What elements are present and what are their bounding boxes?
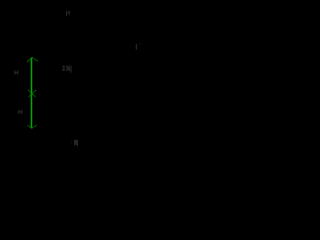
label E (left lower, faint H-like) [19, 110, 22, 114]
label C (left of lens middle, faint text cluster) [62, 66, 71, 73]
label D (left, faint H-like) [15, 70, 18, 74]
ideal lens L1: vertical green double-headed arrow, main line [31, 58, 33, 129]
lens L1 bottom arrowhead (wings) [27, 125, 37, 128]
label F (bottom centre, faint): dot + N + bar [72, 140, 78, 146]
label B (right, faint): bar + dot [136, 43, 140, 49]
lens L1 top arrowhead (wings) [27, 58, 38, 62]
label A (top centre, faint): bar + chevron [67, 11, 71, 16]
lens L1 center cross (X marker at optical center) [28, 90, 36, 97]
